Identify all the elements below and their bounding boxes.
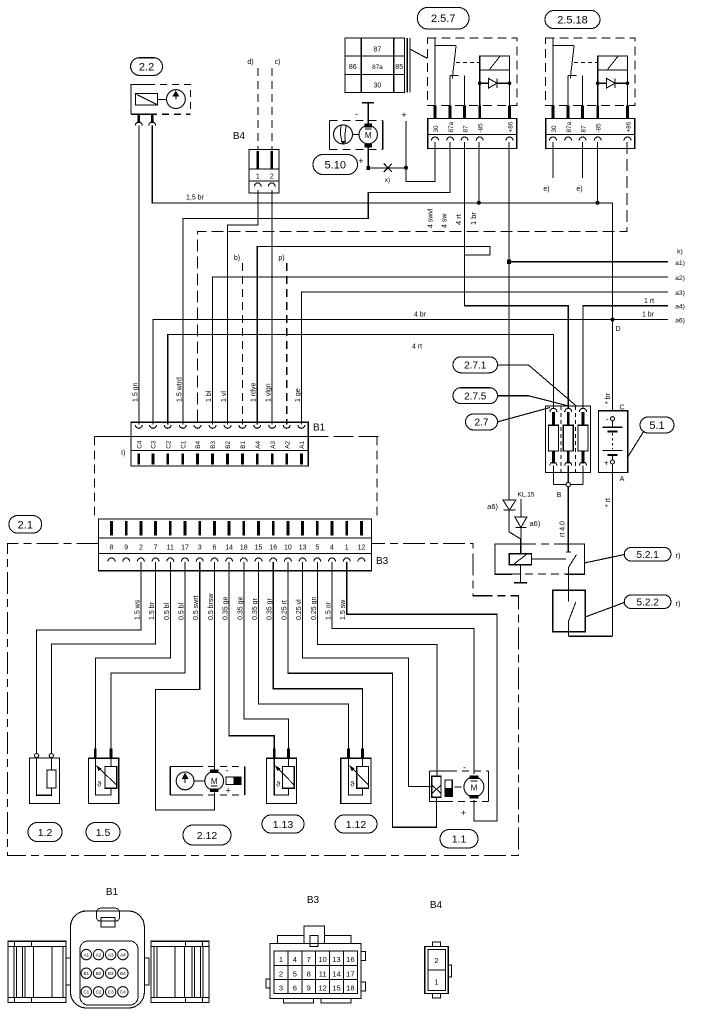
svg-text:A4: A4 <box>255 441 262 449</box>
svg-text:0.35 ge: 0.35 ge <box>237 597 244 620</box>
wire a1) from +86 junction to edge <box>509 261 668 263</box>
B3 view right tabs <box>361 952 365 961</box>
label oval 5.2.1 <box>624 548 671 562</box>
battery plus terminal <box>611 460 615 464</box>
svg-text:0.25 rt: 0.25 rt <box>281 600 288 620</box>
relay 2.5.7 contact pin30 line <box>434 38 436 106</box>
pin 2 of 2.2 <box>151 114 154 123</box>
svg-text:B1: B1 <box>240 441 247 449</box>
motor 5.10 plus wire to junction <box>367 148 369 168</box>
B1 cup pin C3 <box>150 425 157 429</box>
svg-text:13: 13 <box>332 955 340 964</box>
1.1 motor M <box>464 777 484 797</box>
motor 5.10 minus terminal wire <box>367 103 369 124</box>
svg-text:c): c) <box>275 59 281 66</box>
B1 pin tick A3 <box>271 454 274 465</box>
svg-text:87a: 87a <box>566 121 573 132</box>
svg-text:KL.15: KL.15 <box>518 492 535 499</box>
svg-text:5.2.2: 5.2.2 <box>637 597 660 608</box>
svg-text:a4): a4) <box>675 304 685 311</box>
diode a6) upper <box>503 500 516 510</box>
svg-text:10: 10 <box>284 545 292 552</box>
svg-text:+: + <box>358 156 363 166</box>
wire 0.35 ge from B3 pin 18 <box>244 562 289 749</box>
B3 pin tick 9 <box>125 521 128 536</box>
svg-text:1 br: 1 br <box>642 312 655 319</box>
svg-text:* br: * br <box>605 392 612 404</box>
label oval 1.5 <box>86 823 120 842</box>
B3 cup pin 16 <box>270 558 277 562</box>
svg-text:I): I) <box>121 450 125 457</box>
component 1.2 sensor body <box>29 758 59 804</box>
washer pump unit 5.10 enclosure <box>329 119 382 121</box>
svg-text:C1: C1 <box>83 990 89 995</box>
1.1 indicator element <box>445 780 452 796</box>
wire rt 4.0 from fuse bus to relay 5.2.1 <box>567 487 569 551</box>
wire 0.5 bl from B3 pin 17 <box>111 562 185 749</box>
wire 4 rt : B1 pin C2 to left fuse <box>168 335 554 425</box>
B3 cup pin 8 <box>108 558 115 562</box>
svg-text:1.1: 1.1 <box>452 834 467 846</box>
label oval 2.7 <box>466 414 498 430</box>
B4 view side notch <box>448 965 451 977</box>
svg-text:87: 87 <box>374 47 382 54</box>
B3 pin tick 17 <box>184 521 187 536</box>
svg-text:C1: C1 <box>180 440 187 449</box>
diagonal join of diode wires <box>509 532 521 539</box>
label oval 2.1 <box>9 516 42 534</box>
svg-text:b): b) <box>234 255 240 262</box>
1.5 terminal pins <box>94 749 97 759</box>
B3 cup pin 4 <box>329 558 336 562</box>
B1 pin tick C4 <box>137 454 140 465</box>
1.13 thermistor arrow <box>277 767 295 786</box>
relay 2.5.18 coil link dashed <box>574 61 598 63</box>
svg-text:3: 3 <box>198 545 202 552</box>
svg-text:9: 9 <box>307 983 311 992</box>
B1 pin tick C3 <box>152 454 155 465</box>
svg-text:7: 7 <box>307 955 311 964</box>
svg-text:1 br: 1 br <box>469 212 478 225</box>
relay 2.5.18 contact 87 line <box>582 76 584 106</box>
B1 cup pin B3 <box>209 425 216 429</box>
wire from a1 junction down through diode <box>508 264 510 532</box>
wire a4) 1 rt from right fuse to edge <box>583 306 668 409</box>
svg-text:2.7: 2.7 <box>475 418 489 429</box>
connector B3 body <box>99 519 372 571</box>
relay 5.2.1 contact <box>567 544 569 552</box>
B1 cup pin A4 <box>254 425 261 429</box>
B1 view pin A2 <box>93 949 103 959</box>
B1 view pin A1 <box>81 949 91 959</box>
1.13 thermistor element <box>283 766 295 788</box>
B3 cup pin 6 <box>211 558 218 562</box>
B3 cup pin 3 <box>196 558 203 562</box>
relay socket pin grid <box>345 38 405 92</box>
svg-text:1.5 ws: 1.5 ws <box>134 599 141 620</box>
1.12 thermistor element <box>357 766 369 788</box>
B3 pin tick 3 <box>198 521 201 536</box>
B1 view housing <box>71 911 145 1008</box>
ECU top edge left stub <box>95 435 131 437</box>
impeller symbol in 5.10 <box>334 125 353 144</box>
svg-text:e): e) <box>576 186 582 193</box>
svg-text:-: - <box>606 415 609 424</box>
svg-text:C2: C2 <box>96 990 102 995</box>
svg-text:18: 18 <box>346 983 354 992</box>
system boundary 2.1 dash-dot outline <box>7 543 518 855</box>
B4 view top tab <box>433 942 441 947</box>
relay 2.5.7 pin ticks <box>434 105 437 118</box>
relay 2.5.18 label oval <box>545 11 600 29</box>
B3 view housing <box>270 943 361 998</box>
wire: relay 2.5.7 pin 87a to B1 pin C1 (4 sw) <box>183 142 450 425</box>
relay 5.2.1 coil <box>509 554 531 565</box>
wire: relay 2.5.18 pin87 stub e) <box>582 142 584 178</box>
wire 1.5 gn : 2.2 pin1 to B1 pin C4 <box>138 126 140 425</box>
svg-text:1.5 or: 1.5 or <box>326 601 333 620</box>
B1 cup pin C4 <box>135 425 142 429</box>
svg-text:4 rt: 4 rt <box>454 213 463 225</box>
1.13 internal wiring <box>274 758 288 795</box>
B3 pin tick 8 <box>110 521 113 536</box>
svg-text:1.13: 1.13 <box>273 819 294 831</box>
svg-text:B3: B3 <box>307 895 320 906</box>
wire from 5.2.2 to battery plus lead <box>568 635 612 637</box>
leader 2.7.1 to right fuse <box>498 365 577 406</box>
svg-text:6: 6 <box>212 545 216 552</box>
component 2.12 pump unit enclosure <box>170 766 196 768</box>
svg-text:rt 4.0: rt 4.0 <box>560 521 567 537</box>
svg-text:4: 4 <box>330 545 334 552</box>
B3 view latch tower <box>304 926 324 943</box>
svg-text:+: + <box>604 459 609 468</box>
B4 view bottom tab <box>433 994 441 998</box>
B1 pin tick A2 <box>285 454 288 465</box>
svg-text:+: + <box>226 786 231 796</box>
wire from B4 pin1 to B1 pin B2 <box>228 190 258 425</box>
svg-text:a2): a2) <box>675 275 685 282</box>
svg-text:M: M <box>471 783 478 792</box>
leader 5.2.2 <box>585 603 624 618</box>
svg-text:B: B <box>557 492 562 499</box>
B1 view right nub <box>144 958 149 985</box>
B1 view pin A3 <box>106 949 116 959</box>
leader 5.2.1 <box>584 555 624 564</box>
svg-text:B4: B4 <box>120 971 126 976</box>
svg-text:B2: B2 <box>96 971 102 976</box>
svg-text:87a: 87a <box>448 121 455 132</box>
relay 2.5.7 pin label box <box>428 118 517 148</box>
ECU top edge right dash-dot stub <box>308 435 382 437</box>
svg-text:4: 4 <box>293 955 297 964</box>
label oval 5.2.2 <box>624 595 671 609</box>
battery minus terminal <box>611 417 615 421</box>
svg-text:C4: C4 <box>136 440 143 449</box>
relay 2.5.7 coil legs <box>479 70 481 83</box>
B3 cup pin 7 <box>152 558 159 562</box>
B1 pin tick C1 <box>181 454 184 465</box>
B1 cup pin C1 <box>179 425 186 429</box>
wire 0.35 gr from B3 pin 15 <box>259 562 349 749</box>
svg-text:A2: A2 <box>284 441 291 449</box>
motor M in 5.10 <box>359 125 377 143</box>
relay 2.5.18 contact 87a line <box>567 76 569 106</box>
fuse bus bar B <box>553 484 583 486</box>
relay 2.5.7 coil box <box>480 56 510 70</box>
svg-text:18: 18 <box>240 545 248 552</box>
dashed wire d) into B4 pin1 <box>257 68 259 149</box>
B3 pin tick 4 <box>331 521 334 536</box>
svg-text:14: 14 <box>225 545 233 552</box>
link wire in 2.2 <box>157 98 166 100</box>
svg-text:a1): a1) <box>675 260 685 267</box>
wire 0.25 rt from B3 pin 10 <box>288 562 437 827</box>
B4 view housing <box>425 947 449 994</box>
relay 2.5.7 contact blade <box>452 46 456 79</box>
svg-text:3: 3 <box>279 983 283 992</box>
relay 2.5.7 label oval <box>417 7 469 29</box>
svg-text:1.5 br: 1.5 br <box>149 601 156 620</box>
leader 2.7.5 to middle fuse <box>498 396 569 406</box>
B4 pin 1 tick <box>256 151 259 169</box>
svg-text:A2: A2 <box>96 952 102 957</box>
B3 pin tick 18 <box>242 521 245 536</box>
svg-text:5.2.1: 5.2.1 <box>637 550 660 561</box>
relay 2.5.18 contact pin30 line <box>552 38 554 106</box>
B1 cup pin B2 <box>224 425 231 429</box>
wire 1.5 br from B3 pin 7 <box>51 562 155 753</box>
switch 5.2.2 contact <box>567 590 569 601</box>
plus feed stub <box>405 121 407 168</box>
1.13 terminal pins <box>273 749 276 759</box>
relay 2.5.7 dashed enclosure <box>427 38 517 106</box>
link in 5.10 <box>353 133 360 135</box>
svg-text:M: M <box>365 131 372 140</box>
svg-text:9: 9 <box>124 545 128 552</box>
svg-text:87: 87 <box>463 125 470 133</box>
svg-text:1,5 br: 1,5 br <box>186 195 205 202</box>
svg-text:0.25 gn: 0.25 gn <box>311 597 318 620</box>
svg-text:2: 2 <box>434 956 438 965</box>
relay 2.5.7 coil legs to pins <box>479 83 481 105</box>
B1 view left nub <box>66 958 71 985</box>
svg-text:1: 1 <box>256 174 260 181</box>
svg-text:2.1: 2.1 <box>18 519 33 531</box>
B1 view pin B2 <box>93 968 103 978</box>
svg-text:6: 6 <box>293 983 297 992</box>
svg-text:4 swvl: 4 swvl <box>428 208 435 228</box>
svg-text:M: M <box>211 777 218 786</box>
svg-text:B3: B3 <box>210 441 217 449</box>
label oval 2.7.1 <box>453 357 498 373</box>
svg-text:r): r) <box>676 599 681 608</box>
wire: relay 2.5.18 pin -85 to 1,5 br line <box>597 142 599 203</box>
B1 view pin A4 <box>118 949 128 959</box>
junction dot -85 of 2.5.7 on 1,5 br wire <box>477 201 481 205</box>
svg-text:30: 30 <box>551 125 558 133</box>
svg-text:8: 8 <box>110 545 114 552</box>
1.12 terminal pins <box>347 749 350 759</box>
wire 0.5 swrt from B3 pin 3 <box>156 562 215 810</box>
B1 cup pin A2 <box>283 425 290 429</box>
B3 pin tick 7 <box>154 521 157 536</box>
relay 2.5.18 dashed enclosure <box>545 38 635 106</box>
battery 5.1 housing <box>599 411 628 473</box>
svg-text:0.5 bl: 0.5 bl <box>179 602 186 620</box>
svg-text:2: 2 <box>279 969 283 978</box>
B3 pin tick 12 <box>360 521 363 536</box>
svg-text:16: 16 <box>346 955 354 964</box>
svg-text:8: 8 <box>307 969 311 978</box>
2.12 indicator element <box>226 777 241 785</box>
connector B4 body <box>249 149 279 193</box>
wire 0.35 gr from B3 pin 16 <box>273 562 362 749</box>
svg-text:A3: A3 <box>270 441 277 449</box>
B3 cup pin 18 <box>240 558 247 562</box>
svg-text:a6): a6) <box>487 502 498 511</box>
svg-text:A4: A4 <box>120 952 126 957</box>
wire 1,5 br net: 2.2 pin2 - relay coils -85 - node D - battery minus <box>152 126 612 411</box>
svg-text:e): e) <box>543 186 549 193</box>
2.12 pump symbol <box>176 772 194 790</box>
relay 2.5.18 pin label box <box>546 118 635 148</box>
svg-text:2: 2 <box>270 174 274 181</box>
svg-text:* rt: * rt <box>605 498 612 507</box>
fuse block housing <box>545 406 590 473</box>
B3 cup pin 5 <box>314 558 321 562</box>
solenoid valve symbol in 2.2 <box>136 94 158 106</box>
relay 5.2.1 coil to ground <box>520 565 522 583</box>
svg-text:-: - <box>355 109 358 119</box>
svg-text:0.5 swrt: 0.5 swrt <box>193 595 200 620</box>
B1 pin tick B1 <box>241 454 244 465</box>
B1 view pin C2 <box>93 987 103 997</box>
relay 2.5.18 suppression diode <box>598 82 628 84</box>
svg-text:30: 30 <box>374 83 382 90</box>
svg-text:5: 5 <box>315 545 319 552</box>
junction dot at plus feed <box>404 166 408 170</box>
svg-text:a6): a6) <box>675 318 685 325</box>
1.12 internal wiring <box>349 758 363 795</box>
component 1.1 fan unit enclosure <box>429 770 450 772</box>
svg-text:4 br: 4 br <box>414 312 427 319</box>
svg-text:B3: B3 <box>376 556 389 567</box>
B4 pin 2 tick <box>270 151 273 169</box>
ECU right border dashed <box>376 436 378 519</box>
svg-text:0.35 gr: 0.35 gr <box>252 598 259 620</box>
B3 cup pin 14 <box>226 558 233 562</box>
svg-text:7: 7 <box>154 545 158 552</box>
2.12 link <box>194 780 205 782</box>
B3 pin tick 13 <box>301 521 304 536</box>
dashed wire b) to B1 pin B1 <box>241 263 243 425</box>
wire 1.5 sw from B3 pin 1 <box>347 562 497 821</box>
B1 pin tick B2 <box>226 454 229 465</box>
svg-text:r): r) <box>676 551 681 560</box>
B1 view pin B4 <box>118 968 128 978</box>
1.2 resistor element <box>47 770 56 788</box>
B1 view pin B3 <box>106 968 116 978</box>
wire 0.35 ge from B3 pin 14 <box>229 562 274 749</box>
label oval 1.12 <box>335 815 377 833</box>
B1 cup pin A1 <box>298 425 305 429</box>
B3 cup pin 1 <box>343 558 350 562</box>
label oval 1.1 <box>440 830 478 849</box>
dashed wire: relay 2.5.18 coil +86 to B1 pin B4 <box>198 142 628 425</box>
B3 pin tick 15 <box>257 521 260 536</box>
wire a3) from B1 pin A1 to edge <box>301 292 668 425</box>
socket grid double edge <box>406 38 408 92</box>
svg-text:5: 5 <box>293 969 297 978</box>
wire 0.5 brsw from B3 pin 6 <box>213 562 215 770</box>
svg-text:-85: -85 <box>478 123 485 133</box>
relay 2.5.7 cups <box>432 137 439 140</box>
svg-text:87: 87 <box>581 125 588 133</box>
svg-text:87a: 87a <box>372 64 383 71</box>
svg-text:1 ge: 1 ge <box>295 388 302 402</box>
svg-text:1.5 wtrd: 1.5 wtrd <box>176 377 183 402</box>
B1 view pin C4 <box>118 987 128 997</box>
svg-text:2: 2 <box>139 545 143 552</box>
relay 5.2.1 contact link <box>531 558 566 560</box>
connector B1 body <box>131 422 308 466</box>
1.2 internal wiring <box>37 758 52 795</box>
solenoid pump unit 2.2 enclosure <box>131 85 148 115</box>
svg-text:p): p) <box>278 255 284 262</box>
svg-text:2.7.5: 2.7.5 <box>464 391 487 402</box>
B4 cup pin2 <box>268 183 275 186</box>
wire: relay 2.5.7 pin30 to motor plus node <box>406 142 435 181</box>
label oval 2.12 <box>183 825 231 845</box>
node D junction dot <box>611 318 615 322</box>
B3 pin tick 16 <box>272 521 275 536</box>
relay 2.5.7 contact 87a line <box>449 76 451 106</box>
B1 view pin field <box>80 941 138 1005</box>
B1 view pin C3 <box>106 987 116 997</box>
B1 pin tick A1 <box>300 454 303 465</box>
1.5 thermistor arrow <box>98 767 118 786</box>
wire: relay 2.5.7 pin -85 to 1,5 br line <box>478 142 480 203</box>
B1 pin tick B4 <box>196 454 199 465</box>
svg-text:1.5 gn: 1.5 gn <box>132 382 139 402</box>
B3 cup pin 11 <box>167 558 174 562</box>
B3 pin tick 2 <box>139 521 142 536</box>
svg-text:15: 15 <box>255 545 263 552</box>
svg-text:0.25 vl: 0.25 vl <box>296 599 303 620</box>
wire from junction to relay 2.5.7 pin 30 <box>406 168 435 182</box>
svg-text:17: 17 <box>346 969 354 978</box>
B3 cup pin 9 <box>123 558 130 562</box>
svg-text:B2: B2 <box>225 441 232 449</box>
junction dot -85 of 2.5.18 on 1,5 br wire <box>596 201 600 205</box>
battery plus wire * rt downward <box>612 464 614 636</box>
svg-text:1 vlgn: 1 vlgn <box>266 383 273 402</box>
wire: relay 2.5.7 pin 87 down to middle fuse (4 rt) <box>465 142 569 409</box>
B1 pin tick A4 <box>256 454 259 465</box>
B1 pin tick B3 <box>211 454 214 465</box>
square junction a1) <box>507 260 511 264</box>
svg-text:2.2: 2.2 <box>139 62 154 74</box>
1.1 link dash <box>455 786 462 788</box>
relay 2.5.18 coil box <box>598 56 628 70</box>
B3 view left wing <box>277 936 304 944</box>
svg-text:C3: C3 <box>151 440 158 449</box>
1.5 thermistor element <box>105 766 117 788</box>
label oval 1.2 <box>28 823 62 842</box>
pump symbol in 2.2 <box>167 90 186 109</box>
svg-text:14: 14 <box>332 969 340 978</box>
